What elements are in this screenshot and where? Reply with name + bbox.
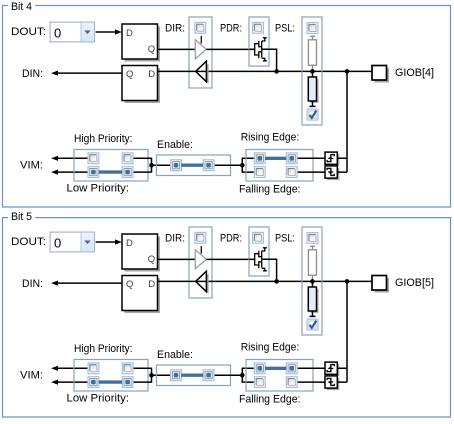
svg-text:GIOB[5]: GIOB[5] [395, 277, 434, 289]
svg-text:Bit 4: Bit 4 [11, 1, 32, 13]
section Bit 5 contents [11, 227, 389, 405]
svg-text:Bit 5: Bit 5 [11, 211, 32, 223]
group box Bit 5 [3, 218, 451, 417]
svg-text:GIOB[4]: GIOB[4] [395, 67, 434, 79]
group box Bit 4 [3, 6, 451, 208]
section Bit 4 contents [11, 17, 389, 195]
